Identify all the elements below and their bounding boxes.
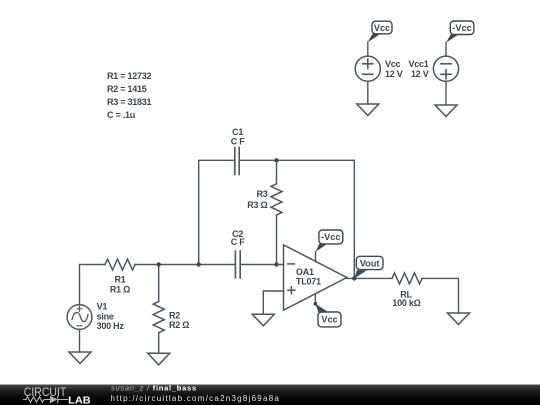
svg-text:300 Hz: 300 Hz: [97, 321, 125, 331]
wire RL to right ground: [422, 278, 459, 313]
Vcc1 plus mark (bottom): [441, 70, 451, 79]
wire left vertical to C1: [199, 160, 235, 264]
svg-text:TL071: TL071: [296, 277, 321, 287]
node junction R1/R2: [157, 262, 161, 266]
wire opamp Vcc pin: [314, 294, 316, 304]
wire Vcc bottom to ground: [367, 81, 369, 104]
node junction R3/C2/opamp: [274, 262, 278, 266]
resistor R1: [105, 259, 135, 270]
flag Vcc (op-amp): [315, 304, 341, 327]
V1 plus mark: [77, 306, 82, 311]
svg-text:R1 Ω: R1 Ω: [110, 284, 130, 294]
svg-text:Vcc: Vcc: [385, 59, 401, 69]
node Vout junction: [352, 276, 356, 280]
node junction C1 branch: [197, 262, 201, 266]
svg-text:-Vcc: -Vcc: [321, 232, 340, 242]
Vcc minus mark: [363, 73, 373, 75]
wire feedback vertical: [353, 160, 355, 278]
node opamp Vcc pin: [314, 302, 318, 306]
svg-text:CIRCUIT: CIRCUIT: [24, 385, 67, 399]
svg-text:100 kΩ: 100 kΩ: [392, 298, 420, 308]
voltage source Vcc1 circle: [433, 56, 458, 81]
svg-text:susan_z / final_bass: susan_z / final_bass: [111, 384, 197, 393]
svg-text:OA1: OA1: [296, 267, 314, 277]
flag Vout: [354, 256, 383, 278]
wire Vcc1 bottom to ground: [445, 81, 447, 105]
wire V1 to ground: [79, 329, 81, 352]
Vcc1 minus mark (top): [441, 63, 451, 65]
flag -Vcc (op-amp): [316, 230, 343, 252]
svg-text:R2 = 1415: R2 = 1415: [107, 84, 147, 94]
wire main input line V1 to R1: [80, 265, 106, 305]
svg-text:R3 Ω: R3 Ω: [247, 200, 267, 210]
ground for RL: [448, 313, 470, 325]
capacitor C2: [235, 251, 240, 278]
wire output to RL: [347, 277, 392, 279]
wire Vcc1 top to flag: [445, 43, 447, 57]
resistor RL: [392, 273, 422, 284]
wire R3 bottom: [276, 215, 278, 265]
svg-text:R1 = 12732: R1 = 12732: [107, 71, 152, 81]
svg-text:sine: sine: [97, 311, 114, 321]
svg-text:C F: C F: [231, 237, 246, 247]
flag -Vcc (top right): [446, 21, 474, 43]
svg-text:C1: C1: [232, 127, 243, 137]
svg-text:-Vcc: -Vcc: [452, 23, 471, 33]
op-amp plus symbol: [288, 287, 295, 294]
wire R3 top: [276, 160, 278, 184]
wire C2 right to opamp: [240, 264, 283, 266]
wire R2 branch: [158, 265, 160, 302]
op-amp minus symbol: [288, 263, 295, 265]
svg-text:12 V: 12 V: [411, 69, 429, 79]
wire R2 to ground: [158, 333, 160, 354]
svg-text:Vcc: Vcc: [374, 23, 390, 33]
resistor R3: [271, 184, 282, 215]
resistor R2: [153, 302, 164, 333]
svg-text:http://circuitlab.com/ca2n3g8j: http://circuitlab.com/ca2n3g8j69a8a: [111, 394, 281, 403]
wire R1 to opamp minus input: [135, 264, 235, 266]
wire opamp plus input to ground: [263, 291, 283, 314]
svg-text:C = .1u: C = .1u: [107, 110, 135, 120]
svg-text:V1: V1: [97, 302, 108, 312]
logo wire with resistor and diode: [23, 396, 68, 403]
svg-text:LAB: LAB: [68, 394, 91, 405]
ground for R2: [148, 353, 170, 365]
svg-text:12 V: 12 V: [385, 69, 403, 79]
ground for Vcc: [357, 104, 379, 116]
wire opamp -Vcc pin: [315, 252, 317, 262]
voltage source Vcc circle: [355, 56, 380, 81]
svg-text:R3 = 31831: R3 = 31831: [107, 97, 152, 107]
svg-text:R3: R3: [256, 189, 267, 199]
Vcc plus mark: [363, 59, 373, 68]
wire Vcc top to flag: [367, 42, 369, 56]
ground for V1: [69, 352, 91, 364]
ground for Vcc1: [435, 105, 457, 117]
svg-text:Vcc: Vcc: [321, 314, 337, 324]
svg-text:R2: R2: [169, 310, 180, 320]
V1 sine symbol: [72, 312, 88, 321]
svg-text:R1: R1: [114, 275, 125, 285]
V1 minus mark: [77, 325, 82, 327]
svg-text:Vout: Vout: [360, 258, 380, 268]
svg-text:Vcc1: Vcc1: [408, 59, 428, 69]
op-amp OA1 triangle: [284, 245, 347, 310]
flag Vcc (top right): [368, 21, 392, 42]
node junction C1/R3 top: [274, 158, 278, 162]
ground for opamp plus: [252, 314, 274, 326]
svg-text:R2 Ω: R2 Ω: [169, 320, 189, 330]
wire C1 to feedback corner: [239, 159, 354, 161]
logo diode triangle: [50, 396, 58, 403]
capacitor C1: [235, 148, 239, 175]
voltage source V1 circle: [67, 305, 92, 330]
svg-text:C F: C F: [231, 136, 246, 146]
